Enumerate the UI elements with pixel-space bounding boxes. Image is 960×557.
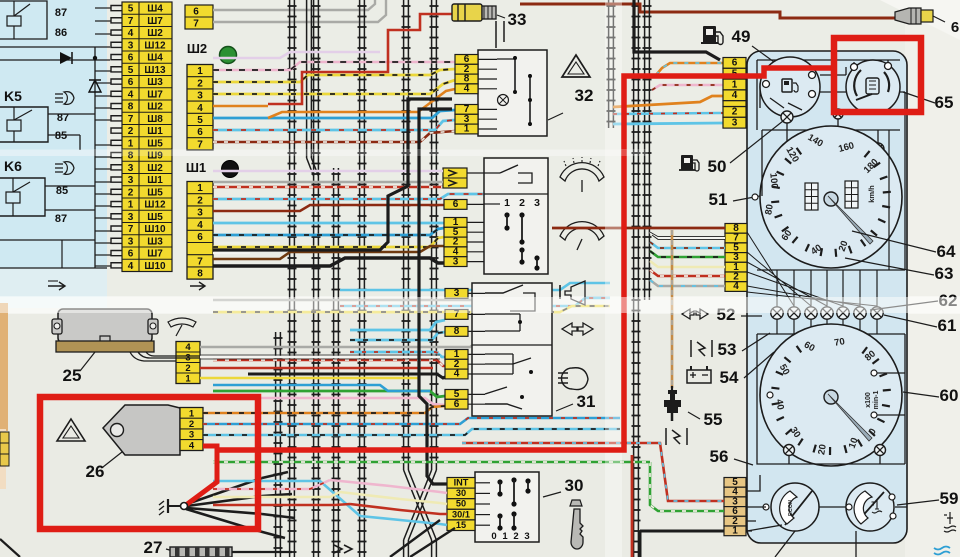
wire maroon-dash from Ш2 pin7 [213,131,455,142]
svg-text:1: 1 [197,183,203,194]
arrow icon a [48,282,65,290]
cluster pin 4 [724,487,746,497]
Ш1 pin 3 [187,205,213,207]
blue wave icon bottom right [934,547,950,555]
svg-text:8: 8 [197,269,203,280]
wire bundle B3 [333,168,335,557]
strip row 7 Ш7 [122,13,172,15]
diode D1 [60,52,72,64]
connector stub pins 6 7 (top) [185,5,213,29]
ignition switch 30 box [475,472,539,542]
spark plug 55 [671,386,673,390]
ground symbol [168,505,181,507]
32 internal contacts [478,58,497,60]
instrument cluster panel outline [747,51,907,543]
cluster pin 8 [725,224,747,234]
strip row 3 Ш12 [122,38,172,40]
wire black thick from Ш1 pin8 [213,258,444,266]
vertical page fold light band [605,0,622,557]
svg-text:4: 4 [454,369,460,380]
relay K4 (top, partial) [0,1,47,39]
wire darkred to 30/1 [350,504,447,514]
Ш1 pin 8 [187,266,213,268]
indicator tach l [784,445,795,456]
strip row 3 Ш5 [122,209,172,211]
25 pin 2 [176,362,200,364]
wire pale to 50 [340,492,447,504]
wire teal rows y290-306 [340,283,610,290]
svg-text:30/1: 30/1 [452,509,470,519]
svg-text:7: 7 [193,19,199,30]
connector pins of 32 [455,55,478,65]
svg-text:15: 15 [456,520,466,530]
wire bundle B10 [644,0,646,300]
svg-text:85: 85 [55,130,67,142]
warning triangle icon [57,419,85,441]
Ш1 pin 2 [187,193,213,195]
svg-text:2: 2 [128,126,134,137]
black wires joining bundles right [255,472,295,538]
wire lavender into zigzag [213,170,443,173]
svg-text:ECON: ECON [788,500,794,516]
fuel pump icon 50 [681,155,693,170]
strip row 8 Ш9 [122,148,172,150]
cluster pin 5 [724,478,746,488]
svg-text:32: 32 [575,86,594,105]
wire teal solid to pin3 [613,123,723,124]
cluster pin 2 [724,516,746,526]
red highlight box (component 26 circuit) [40,397,258,529]
battery icon 54 [687,370,711,383]
wire black to pin1 [640,531,724,557]
Ш1 pin 7 [187,254,213,256]
node [93,56,97,60]
svg-text:4: 4 [128,261,134,272]
turn arrows icon 52 [682,309,708,319]
cluster pin 6 [723,58,746,69]
svg-text:Ш2: Ш2 [147,102,163,113]
svg-text:K6: K6 [4,158,22,174]
svg-text:6: 6 [454,399,460,410]
indicator tach r [875,445,886,456]
svg-text:1: 1 [464,124,470,135]
svg-text:Ш2: Ш2 [147,163,163,174]
svg-text:50: 50 [456,499,466,509]
wire bundle B8 [608,0,610,128]
svg-text:3: 3 [197,208,203,219]
svg-text:4: 4 [732,90,738,101]
wire bundle B7b [431,540,433,557]
relay 25 body [58,309,152,343]
wire orange from Ш2 pin4 [213,105,268,108]
fuse cross-reference strip [122,2,172,272]
svg-text:59: 59 [940,489,959,508]
wire brown pair from Ш1 pin7 [213,246,444,259]
fuel pump icon 49 [703,26,716,43]
temp gauge [846,483,894,531]
temp symbol [872,500,883,513]
wires from relay body to connector [130,352,200,361]
cluster pin 3 [725,253,747,263]
svg-text:25: 25 [63,366,82,385]
svg-text:80: 80 [763,203,776,215]
connector pins of wiper switch [444,200,467,210]
Ш2 pin 4 [187,100,213,102]
sensor 66 body [895,8,921,24]
svg-text:55: 55 [704,410,723,429]
svg-text:Ш2: Ш2 [147,28,163,39]
wire maroon from Ш1 pin3 [213,205,444,211]
scan fold light band [0,296,960,314]
svg-text:3: 3 [128,212,134,223]
svg-text:1: 1 [189,408,195,419]
indicator fuel warn [781,111,793,123]
svg-text:Ш12: Ш12 [144,40,166,51]
teal group to block31 [350,320,445,330]
svg-text:Ш5: Ш5 [147,212,163,223]
zigzag 2-pin connector [443,168,467,188]
svg-text:2: 2 [128,187,134,198]
strip row 3 Ш1 [122,173,172,175]
32 lamp symbol [498,95,509,106]
cluster pin 1 [723,79,746,90]
svg-text:1: 1 [185,374,191,385]
wire gray row y300 [213,294,540,300]
svg-text:6: 6 [732,58,738,69]
cluster pin 5 [723,68,746,79]
svg-text:8: 8 [128,102,134,113]
arrow icon b [190,282,205,290]
brake warning icon 2 [665,428,667,445]
fog light icon K6 [55,164,63,172]
fuel icon inside [782,79,792,92]
indicator right [872,143,884,155]
svg-text:Ш8: Ш8 [147,114,163,125]
wire pink from Ш2 pin1 [213,62,455,70]
speedo needle [824,192,838,206]
left relay panel background [0,0,107,268]
svg-text:4: 4 [197,103,203,114]
vertical bus x95 [94,47,96,268]
svg-text:Ш4: Ш4 [147,53,163,64]
svg-text:2: 2 [197,195,203,206]
temp small icon below 59 [944,512,956,532]
stub wires panel to strip [95,7,111,9]
wire bundle B6a [403,0,405,470]
strip row 7 Ш10 [122,222,172,224]
cluster pin 5 [725,243,747,253]
wire green-white to pin6 [650,462,724,511]
wire teal to 15 [360,516,447,525]
top right white corner [880,0,960,40]
svg-text:3: 3 [524,531,529,542]
brake warning icon 53 [690,340,692,357]
contact dumbbells [504,212,509,217]
svg-text:4: 4 [189,440,195,451]
svg-text:53: 53 [718,340,737,359]
wire bundle B9 [633,0,635,557]
connector pins of 31 [445,289,468,299]
wire black thick long (y250) [213,99,452,250]
svg-text:6: 6 [128,53,134,64]
wire bundle B2 [313,0,315,557]
bundle merge diagonal [307,158,319,176]
wire lightblue from Ш1 pin4 [213,222,444,225]
washer pump icon bottom [334,545,352,553]
svg-text:Ш4: Ш4 [147,4,163,15]
svg-text:6: 6 [453,199,459,210]
svg-text:Ш2: Ш2 [187,41,207,56]
turn arrows icon [562,323,577,335]
cluster pin 3 [724,497,746,507]
connector pins of 30 [447,478,475,489]
svg-text:km/h: km/h [867,185,876,203]
svg-text:Ш1: Ш1 [186,160,206,175]
svg-text:3: 3 [732,118,738,129]
svg-text:7: 7 [128,16,134,27]
wire bundle B7 [431,0,433,470]
cluster pin 3 [723,117,746,128]
fuel level gauge (49) [760,57,820,117]
svg-text:Ш7: Ш7 [147,89,163,100]
svg-text:Ш1: Ш1 [147,126,163,137]
svg-text:3: 3 [197,91,203,102]
cluster pin 2 [725,272,747,282]
30 contact dumbbells [497,479,502,484]
black elbow top right column [634,0,720,60]
svg-text:Ш3: Ш3 [147,77,163,88]
25 pin 1 [176,372,200,374]
svg-text:K5: K5 [4,88,22,104]
svg-text:min-1: min-1 [873,391,880,410]
red highlight box around 65 [834,38,921,112]
svg-text:87: 87 [55,213,67,225]
wire pink to 30 [330,480,447,493]
svg-text:27: 27 [144,538,163,557]
speedometer 51 [760,126,902,268]
wire orange-teal to pin6 [656,63,723,75]
svg-text:Ш12: Ш12 [144,200,166,211]
strip row 3 Ш2 [122,160,172,162]
svg-text:INT: INT [454,478,469,488]
black dot marker [222,161,239,178]
svg-text:8: 8 [454,326,460,337]
cluster pin 4 [725,282,747,292]
diag leader lines inside cluster [747,232,877,306]
indicator left [781,143,793,155]
svg-text:5: 5 [197,115,203,126]
headlight icon [558,373,568,383]
svg-text:0: 0 [491,531,496,542]
wire black thick to INT [419,109,452,484]
speedo left terminal [752,194,758,200]
strip row 8 Ш2 [122,99,172,101]
wire red staircase to item 33 [268,14,452,104]
indicator row5 [837,307,849,319]
wiper icon 2 [560,222,604,240]
wire red-teal to pin3 [636,443,724,501]
switch symbol top section [467,172,500,174]
wire yellow-black from Ш2 pin3 [213,80,455,94]
wire horizontal y60 [0,59,110,61]
cluster pin 1 [724,526,746,536]
wire yellow to wiper 5 [213,237,444,247]
svg-text:3: 3 [128,40,134,51]
strip row 6 Ш4 [122,50,172,52]
svg-text:1: 1 [504,197,510,209]
svg-text:5: 5 [128,65,134,76]
tachometer 60 [760,324,902,466]
svg-text:6: 6 [197,127,203,138]
green dot marker [220,47,237,64]
edge connector sliver [0,432,9,466]
svg-text:30: 30 [456,488,466,498]
switch block 31 box [472,283,552,416]
strip row 1 Ш12 [122,197,172,199]
wire blue from Ш2 pin5 to 32 pin7 [213,110,455,118]
wire pink y398 [213,398,445,405]
strip row 5 Ш4 [122,1,172,3]
wire green y391 [213,391,445,397]
strip row 6 Ш7 [122,246,172,248]
wire bundle B1 [289,0,291,557]
svg-text:4: 4 [128,89,134,100]
cluster pin 4 [723,90,746,101]
svg-text:30: 30 [565,476,584,495]
switch block 32 box [478,50,547,136]
wire orange solid to pin4 [613,96,723,107]
Ш2 pin 6 [187,125,213,127]
svg-text:2: 2 [732,107,738,118]
26 pin 3 [180,428,203,430]
svg-text:3: 3 [534,197,540,209]
bottom gauge wires [747,506,907,508]
strip row 7 Ш8 [122,111,172,113]
wire teal-red from Ш1 pin2 [213,194,484,199]
svg-text:2: 2 [197,78,203,89]
svg-text:Ш1: Ш1 [147,175,163,186]
svg-text:4: 4 [128,28,134,39]
right margin lighter band [905,0,960,557]
strip row 4 Ш10 [122,258,172,260]
component 27 body (partial) [170,547,232,557]
wire bundle B6b [403,540,405,557]
svg-text:1: 1 [128,200,134,211]
Ш1 pin 4 [187,217,213,219]
svg-text:33: 33 [508,10,527,29]
thick red main run to cluster [217,68,833,450]
wire red from 25 pin2 [200,367,433,370]
wire yellow-black from Ш2 pin2 [213,69,455,82]
svg-text:49: 49 [732,27,751,46]
hazard flasher 26 body [103,405,180,455]
cluster inner wires top [757,60,900,130]
wire gray from 25 pin4 [200,340,484,347]
cluster mid wires [757,270,905,334]
wire lavender [213,52,380,58]
tach needle [824,390,838,404]
svg-text:x100: x100 [865,392,872,408]
wire white to wiper 3 [213,252,250,254]
clock gauge 65 [846,60,900,114]
svg-text:20: 20 [816,443,829,455]
cluster pin 6 [724,507,746,517]
connector 33 body [452,4,482,21]
bottom panel wires [0,239,95,241]
page edge mark bottom left [0,539,20,557]
wire horizontal y47 [0,46,110,48]
wires into middle connector [552,227,725,230]
svg-text:6: 6 [197,232,203,243]
wire black bottom diagonals [390,520,455,557]
wire red-dash from Ш1 pin1 [213,186,455,189]
svg-text:100: 100 [767,172,779,189]
Ш2 pin 5 [187,112,213,114]
svg-text:54: 54 [720,368,739,387]
svg-text:64: 64 [937,242,956,261]
svg-text:4: 4 [464,84,470,95]
wire teal-dash from 26 pin3 [203,429,620,435]
svg-text:86: 86 [55,27,67,39]
svg-text:6: 6 [128,77,134,88]
indicator row2 [788,307,800,319]
svg-text:3: 3 [453,256,459,267]
wire dark brown to sensor 66 [520,4,895,18]
cluster pin 1 [725,262,747,272]
26 pin 4 [180,439,203,441]
svg-text:Ш13: Ш13 [144,65,166,76]
wiper switch box [484,158,548,274]
indicator row1 [771,307,783,319]
Ш2 pin 7 [187,137,213,139]
bundle crossover X [404,470,437,540]
svg-text:Ш7: Ш7 [147,249,163,260]
wire bundle B0 [275,332,277,557]
svg-text:26: 26 [86,462,105,481]
wiper icon [168,318,196,327]
key icon [571,509,583,549]
Ш1 pin 6 [187,229,213,231]
svg-text:85: 85 [56,185,68,197]
strip row 2 Ш5 [122,185,172,187]
ground node [181,503,188,510]
strip row 6 Ш3 [122,75,172,77]
svg-text:7: 7 [128,114,134,125]
strip row 4 Ш7 [122,87,172,89]
wire bundle B2a [306,0,308,158]
svg-text:1: 1 [197,66,203,77]
cluster pin 7 [725,233,747,243]
svg-text:87: 87 [55,7,67,19]
svg-text:6: 6 [128,249,134,260]
svg-text:2: 2 [513,531,518,542]
Ш2 pin 2 [187,76,213,78]
wire red-dash y360 [213,360,445,366]
diode D2 vertical [89,80,101,92]
svg-text:3: 3 [128,175,134,186]
wire yellow y312 [213,306,610,312]
svg-text:Ш10: Ш10 [144,261,166,272]
wire dark red vertical bottom [631,455,634,557]
svg-text:3: 3 [128,163,134,174]
page curl orange sliver left edge [0,303,8,431]
indicator row4 [821,307,833,319]
scan fold translucent bands [0,297,960,313]
31 internals [485,285,523,293]
wire yellow from 25 pin1 [200,377,420,380]
wire pink-maroon to pin1 [652,85,723,90]
indicator aux [833,109,843,119]
